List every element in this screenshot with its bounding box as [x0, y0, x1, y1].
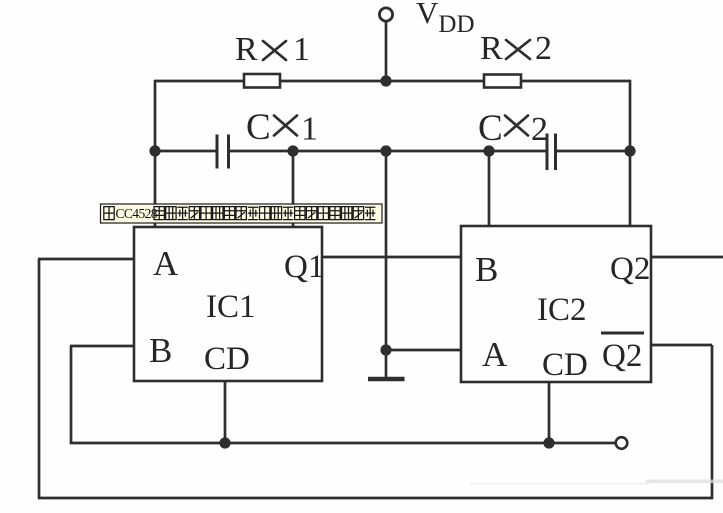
wire C rail seg 4: [556, 150, 632, 153]
junction ground node: [380, 344, 391, 355]
op IC U2 box IC2: [461, 226, 651, 382]
svg-text:CD: CD: [204, 341, 250, 377]
capacitor CX2: [546, 134, 549, 171]
junction C rail at IC1 right pin: [287, 145, 298, 156]
wire IC2 A pin: [386, 349, 462, 352]
wire IC2 left top pin drop: [488, 151, 491, 226]
svg-text:CD: CD: [542, 347, 588, 383]
capacitor CX1: [216, 135, 219, 169]
wire CD rail: [70, 442, 616, 445]
annotation callout box: [101, 204, 383, 223]
svg-text:R: R: [235, 31, 258, 68]
wire top rail left segment: [154, 80, 244, 83]
resistor RX1: [244, 74, 280, 88]
wire IC2 CD drop: [548, 382, 551, 443]
svg-text:Q1: Q1: [284, 249, 324, 285]
svg-text:CC4528: CC4528: [116, 206, 158, 221]
wire IC1 B pin: [70, 345, 134, 348]
wire right feedback vertical: [711, 345, 714, 499]
terminal CD output circle: [616, 437, 628, 449]
svg-text:Q2: Q2: [610, 251, 650, 287]
wire right drop to IC2 pin: [629, 80, 632, 226]
wire C rail seg 3: [386, 150, 547, 153]
svg-text:1: 1: [293, 31, 310, 68]
svg-text:IC1: IC1: [206, 289, 256, 325]
wire IC1 right top pin drop: [292, 151, 295, 227]
svg-text:2: 2: [535, 30, 552, 67]
svg-text:R: R: [480, 30, 503, 67]
junction C rail center: [380, 145, 391, 156]
svg-text:2: 2: [531, 111, 548, 148]
wire left feedback vertical: [38, 259, 41, 499]
svg-text:A: A: [482, 335, 508, 374]
wire C rail seg 2: [229, 150, 387, 153]
svg-text:1: 1: [301, 111, 318, 148]
wire IC1 A pin: [38, 258, 134, 261]
op IC U1 box IC1: [134, 227, 322, 381]
wire center drop to ground node: [385, 151, 388, 350]
svg-text:B: B: [149, 331, 172, 370]
wire top rail middle segment: [280, 80, 484, 83]
junction VDD rail: [380, 75, 391, 86]
wire top rail right segment: [521, 80, 631, 83]
junction C rail right: [624, 145, 635, 156]
wire Q2bar pin: [651, 344, 712, 347]
wire Q1 to IC2 B: [322, 256, 461, 259]
svg-text:Q2: Q2: [602, 338, 642, 374]
scan artifact streak: [646, 480, 723, 484]
resistor RX2: [484, 75, 521, 88]
svg-text:B: B: [475, 250, 498, 289]
power terminal VDD circle: [379, 8, 392, 21]
svg-text:A: A: [153, 244, 179, 283]
wire left drop to IC1 pin: [154, 80, 157, 227]
wire Q2 output: [651, 256, 723, 259]
svg-text:C: C: [246, 107, 271, 148]
wire bottom feedback horizontal: [38, 497, 713, 500]
svg-text:IC2: IC2: [537, 292, 587, 328]
wire C rail seg 1: [154, 150, 217, 153]
junction C rail left: [149, 145, 160, 156]
wire B feedback vertical: [70, 346, 73, 444]
junction IC2 CD: [543, 437, 554, 448]
junction IC1 CD: [219, 437, 230, 448]
wire VDD stem: [385, 21, 388, 81]
wire IC1 CD drop: [224, 381, 227, 443]
ground: [385, 350, 388, 377]
svg-text:C: C: [478, 108, 503, 149]
junction C rail at IC2 left pin: [483, 145, 494, 156]
